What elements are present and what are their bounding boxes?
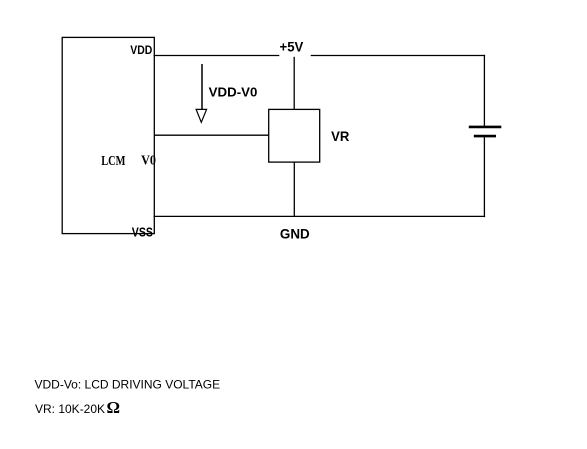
wire: battery negative down to ground rail	[483, 137, 485, 217]
LCM module block U1	[62, 37, 154, 233]
wire: right side down to battery positive	[483, 55, 485, 126]
svg-text:V0: V0	[141, 154, 156, 169]
battery BT1 positive plate	[469, 126, 502, 129]
wire: +5V node to top-right corner	[311, 55, 485, 57]
svg-text:GND: GND	[280, 227, 310, 242]
wire: ground rail from VSS pin to bottom-right corner	[154, 215, 486, 217]
svg-text:VR: 10K-20KΩ: VR: 10K-20KΩ	[35, 398, 120, 417]
svg-text:VR: VR	[331, 129, 349, 144]
svg-text:LCM: LCM	[101, 154, 125, 169]
svg-text:VDD-V0: VDD-V0	[209, 84, 258, 99]
arrow VDD-V0 shaft	[201, 64, 203, 109]
wire: VR wiper to V0 pin	[154, 134, 269, 136]
svg-text:VDD: VDD	[130, 43, 152, 57]
arrow VDD-V0 open head	[196, 109, 207, 122]
wire: VR bottom to ground rail	[293, 162, 295, 216]
svg-text:+5V: +5V	[280, 39, 304, 54]
wire: VDD pin to +5V node	[154, 55, 280, 57]
battery BT1 negative plate	[474, 135, 496, 138]
svg-text:VSS: VSS	[132, 225, 154, 240]
potentiometer VR body	[269, 109, 320, 162]
svg-text:VDD-Vo: LCD DRIVING VOLTAGE: VDD-Vo: LCD DRIVING VOLTAGE	[35, 378, 221, 392]
wire: +5V node down to VR top	[293, 57, 295, 110]
